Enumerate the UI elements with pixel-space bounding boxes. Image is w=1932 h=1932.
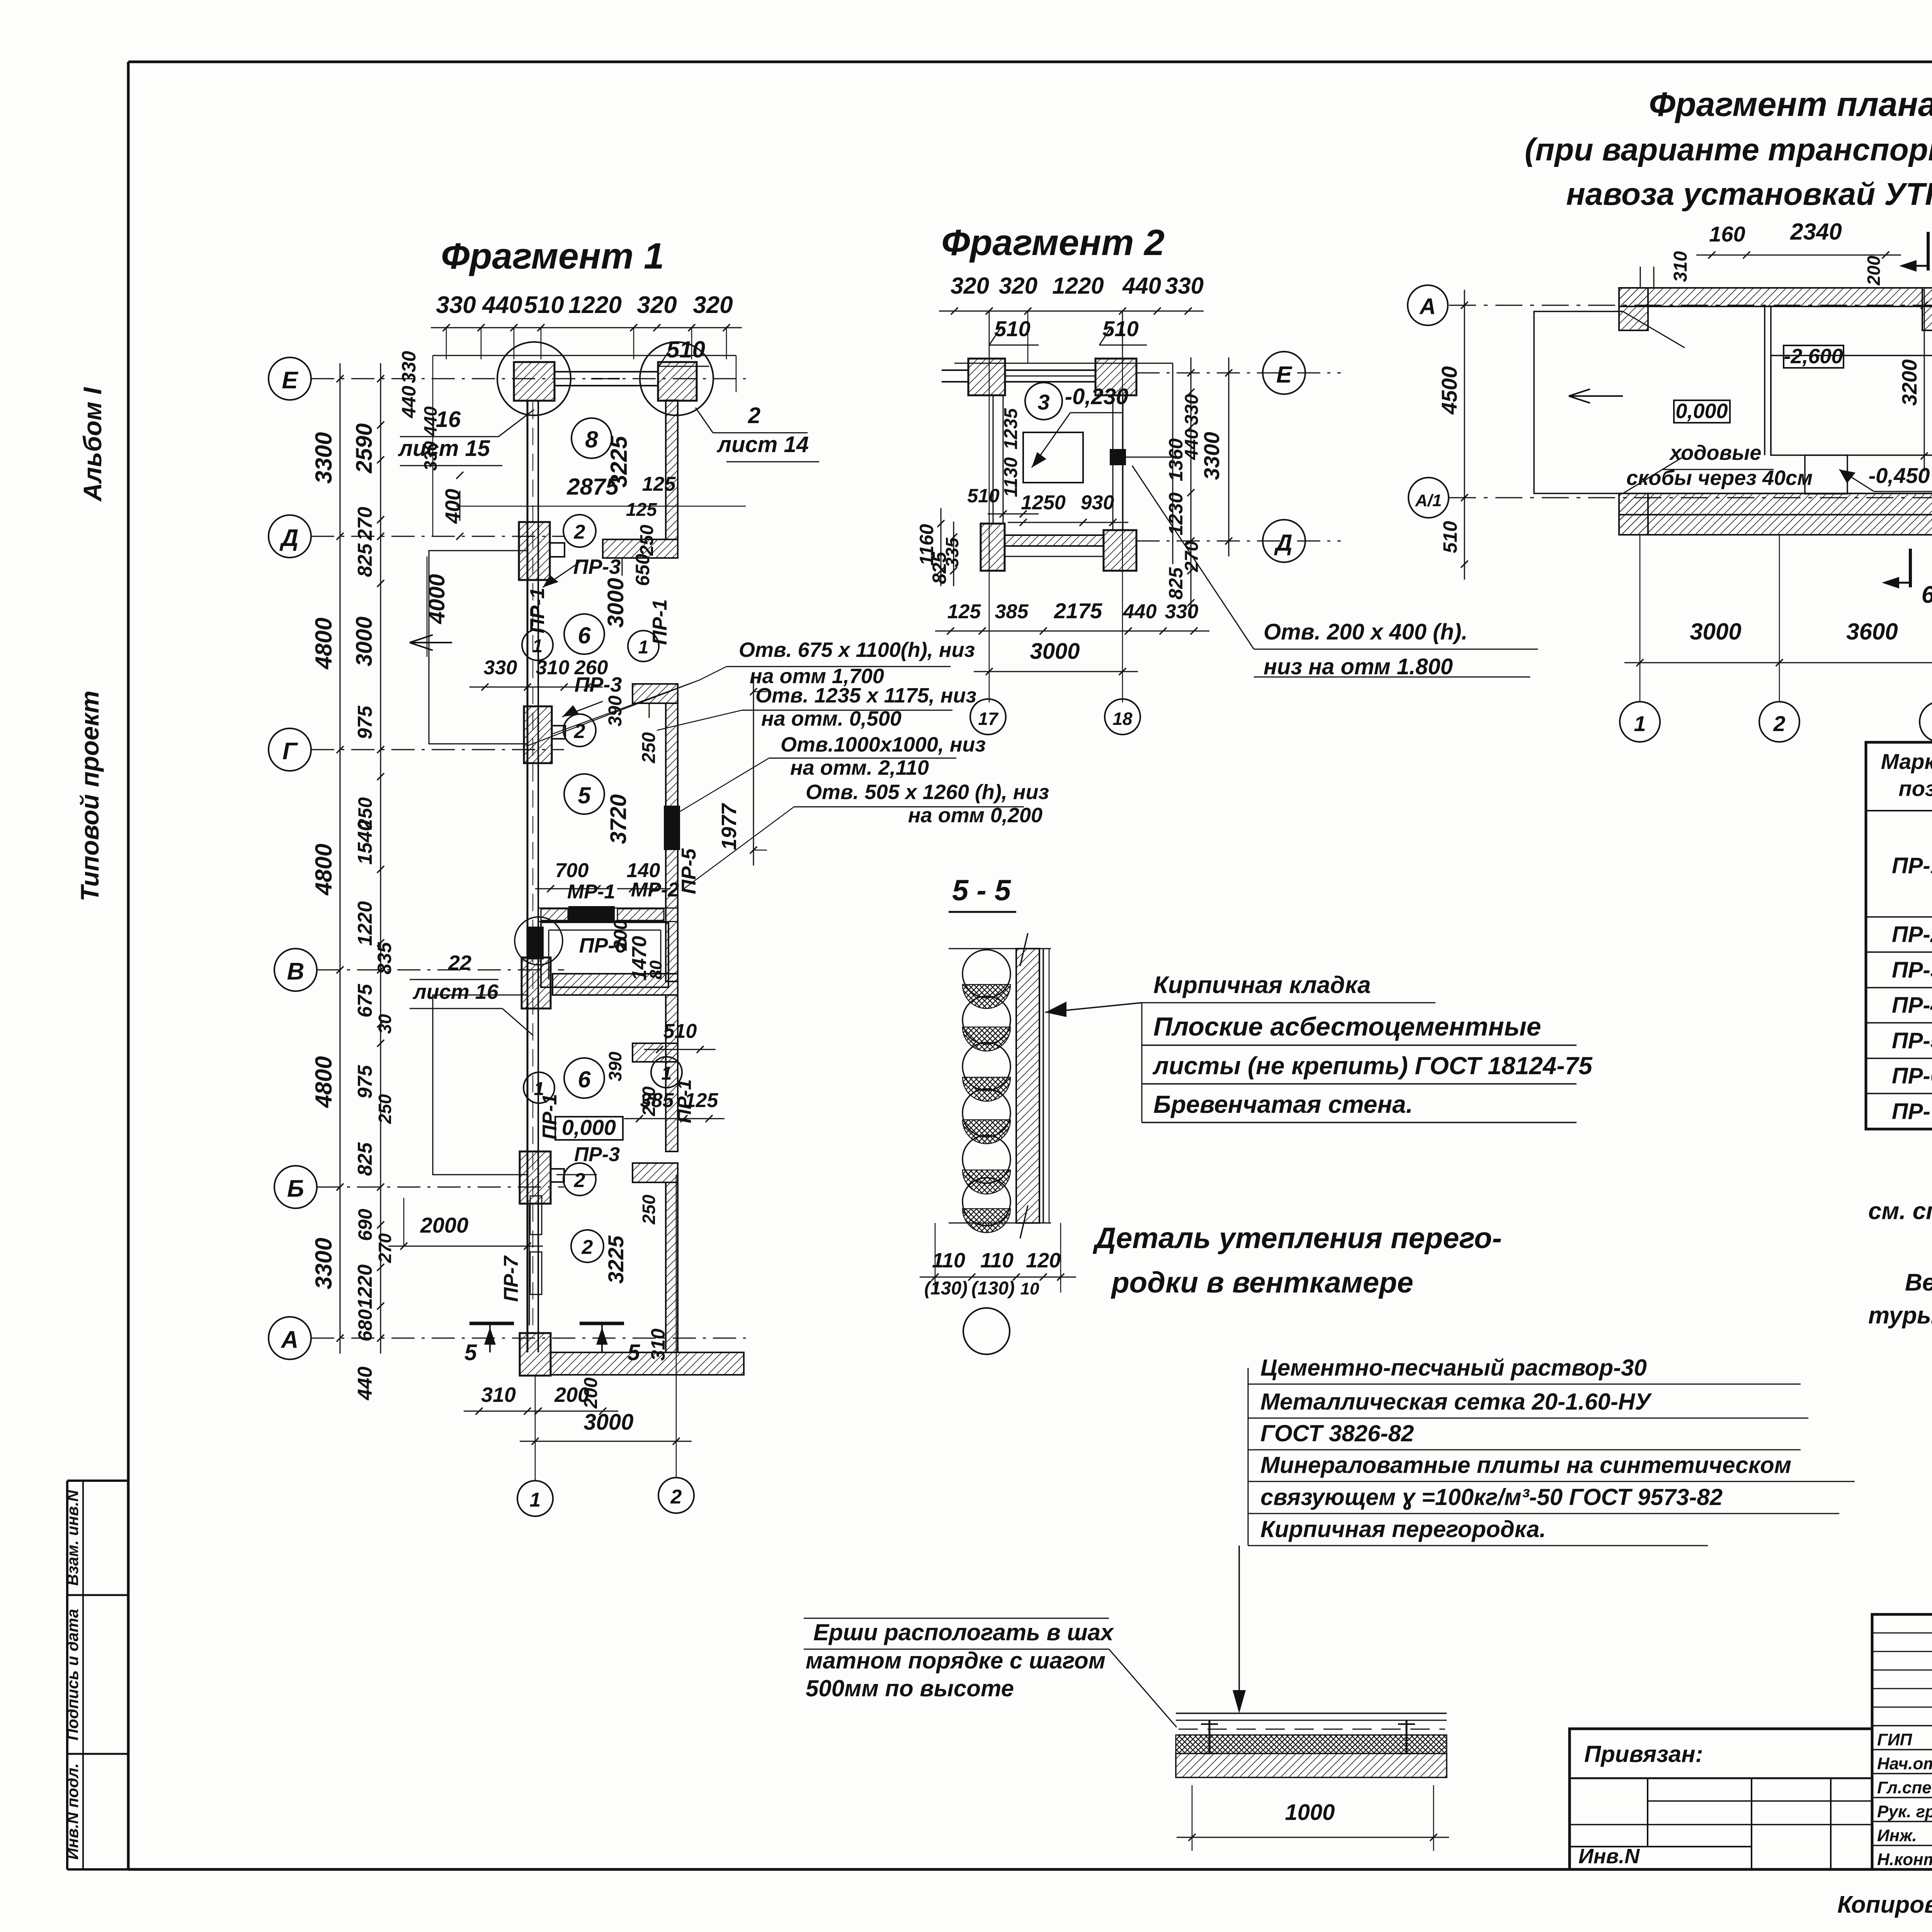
svg-text:510: 510 [524,292,564,318]
svg-text:1220: 1220 [354,901,376,946]
svg-text:ПР-6: ПР-6 [1892,1063,1932,1088]
svg-text:2: 2 [670,1486,682,1508]
svg-text:390: 390 [605,1051,625,1081]
plan column circles 1 2 3 [1639,535,1641,701]
svg-text:330: 330 [436,292,476,318]
svg-text:3000: 3000 [583,1410,633,1435]
bottom band of ventkamera [553,974,678,995]
plan top-right pilaster [1922,288,1932,330]
svg-text:Марка,: Марка, [1881,749,1932,774]
svg-text:125: 125 [626,500,657,520]
black block PR-5 [664,806,680,850]
svg-text:690: 690 [354,1209,376,1241]
pilaster at axis G [524,706,552,763]
svg-text:Фрагмент 1: Фрагмент 1 [441,236,664,277]
svg-text:120: 120 [1026,1249,1061,1272]
svg-text:ПР-3: ПР-3 [573,555,621,578]
axis circle A plan [1408,285,1448,325]
svg-text:270: 270 [375,1233,395,1263]
svg-text:10: 10 [1020,1279,1039,1298]
svg-text:440: 440 [481,292,522,318]
section mark 6 bottom [1909,549,1912,587]
adjacent room outline V-B [433,995,527,1175]
svg-text:Копировал: Копировал [1837,1891,1932,1918]
svg-text:(при варианте транспортировки: (при варианте транспортировки [1525,132,1932,167]
svg-text:700: 700 [555,859,589,882]
svg-text:200: 200 [1864,255,1884,286]
svg-text:250: 250 [639,1194,659,1225]
svg-text:675: 675 [354,984,376,1018]
svg-text:4800: 4800 [311,1056,337,1108]
svg-text:440: 440 [354,1367,376,1401]
svg-text:3: 3 [1037,390,1049,414]
room circle 2 (upper) [563,515,596,547]
open rectangle left (ramp) [1534,311,1623,493]
svg-text:Нач.отд: Нач.отд [1877,1754,1932,1773]
svg-text:листы (не крепить) ГОСТ 18124-: листы (не крепить) ГОСТ 18124-75 [1152,1052,1593,1080]
axis circle B [274,1166,317,1208]
room circle 5 [564,774,604,814]
svg-text:22: 22 [448,951,471,975]
svg-text:1: 1 [530,1489,541,1511]
corner notch band near 125 [603,539,678,558]
svg-text:А/1: А/1 [1415,491,1442,510]
fragment 1 top outline with detail circles [433,355,736,356]
fragment 2 bottom-left pilaster [981,524,1005,571]
right wall lower segment [666,1182,678,1352]
pilaster at axis B [520,1151,551,1204]
svg-text:825: 825 [354,1142,376,1176]
svg-text:туры наружного воздуха мину: туры наружного воздуха минус 40°С [1868,1302,1932,1329]
svg-text:А: А [281,1327,299,1353]
plan bottom wall bands [1619,493,1932,515]
fragment 2 outline box [954,363,1173,364]
svg-text:ПР-7: ПР-7 [1892,1099,1932,1124]
svg-text:ПР-7: ПР-7 [500,1255,522,1302]
svg-text:Цементно-песчаный раствор-30: Цементно-песчаный раствор-30 [1260,1355,1647,1381]
axis circle V [274,949,317,991]
adjacent room outline D-G [429,551,527,744]
svg-text:6: 6 [578,622,591,648]
plan bottom-left pilaster [1619,493,1648,535]
black block in left wall + detail circle [527,927,544,959]
svg-text:Д: Д [1274,530,1292,556]
svg-text:4800: 4800 [311,617,337,669]
axis circle A [269,1317,311,1359]
svg-text:385: 385 [640,1089,674,1112]
axis circle A/1 [1408,478,1449,518]
svg-text:ПР-6: ПР-6 [579,934,627,957]
svg-text:250: 250 [639,732,659,764]
svg-text:6: 6 [1922,582,1932,608]
inner wall vertical [1764,305,1765,455]
svg-text:ПР-1: ПР-1 [526,588,549,633]
plan top-left pilaster [1619,288,1648,330]
svg-text:110: 110 [980,1249,1014,1272]
svg-text:400: 400 [441,489,464,524]
svg-text:ходовые: ходовые [1669,441,1762,464]
svg-text:Инж.: Инж. [1877,1826,1917,1845]
room circle 1 right [628,631,659,662]
svg-text:17: 17 [978,709,999,729]
svg-text:ПР-3: ПР-3 [575,673,622,696]
svg-text:Кирпичная перегородка.: Кирпичная перегородка. [1260,1516,1546,1542]
svg-text:(130): (130) [971,1278,1015,1299]
svg-text:Отв. 1235 х 1175, низ: Отв. 1235 х 1175, низ [755,684,976,707]
-2,600 box plan [1784,345,1844,368]
svg-text:лист 16: лист 16 [412,980,499,1003]
right corner wall at room 5 top [633,684,678,703]
pilaster at axis D [519,522,550,580]
sheet frame [128,61,1932,63]
room circle 1 right lower [651,1057,682,1088]
svg-text:2: 2 [748,403,760,428]
svg-text:ПР-1: ПР-1 [649,599,671,645]
black block right wall [1110,449,1126,465]
svg-text:Альбом I: Альбом I [78,387,107,502]
fragment 2 right wall [1112,395,1114,530]
privyazan table [1570,1729,1872,1869]
axis line D [311,536,564,537]
axis line G [311,749,564,750]
svg-text:2: 2 [582,1236,593,1259]
room circle 2 bottom [571,1230,604,1262]
signature table [1872,1614,1932,1869]
svg-text:5: 5 [464,1340,477,1365]
svg-text:1: 1 [638,637,649,658]
svg-text:3300: 3300 [311,1238,337,1289]
svg-text:270: 270 [354,507,376,541]
axis line B [317,1187,564,1188]
specification table grid [1866,742,1932,1129]
svg-text:ПР-1: ПР-1 [673,1079,695,1123]
room circle 2 lower [563,1163,596,1196]
axis line V [317,969,564,971]
chimney marks top-left [1640,267,1641,288]
svg-text:Б: Б [287,1175,304,1202]
lintel between pilasters on axis E [554,371,658,372]
fragment 2 axis E circle [1136,372,1341,374]
svg-text:Гл.спец.: Гл.спец. [1877,1778,1932,1797]
svg-text:2000: 2000 [420,1213,469,1237]
svg-text:Рук. гр.: Рук. гр. [1877,1802,1932,1821]
svg-text:835: 835 [374,942,395,975]
right wall below ventkamera [666,995,678,1151]
fragment 1 left wall (axis E to A) [527,400,529,1352]
svg-text:2590: 2590 [352,423,377,473]
svg-text:Бревенчатая стена.: Бревенчатая стена. [1153,1090,1413,1118]
svg-text:родки в венткамере: родки в венткамере [1111,1266,1413,1299]
svg-text:Взам. инв.N: Взам. инв.N [63,1489,82,1586]
svg-text:Величины, указанные в скобка: Величины, указанные в скобках, даны для … [1905,1269,1932,1296]
room circle 3 [1025,383,1062,420]
svg-text:330: 330 [484,656,517,679]
svg-text:-2,600: -2,600 [1784,345,1843,368]
svg-text:навоза установкай УТН-10): навоза установкай УТН-10) [1566,177,1932,212]
svg-text:Отв. 200 х 400 (h).: Отв. 200 х 400 (h). [1264,619,1468,645]
svg-text:МР-1: МР-1 [567,881,615,903]
svg-text:680: 680 [354,1309,376,1342]
svg-text:связующем ɣ =100кг/м³-50 ГОСТ: связующем ɣ =100кг/м³-50 ГОСТ 9573-82 [1260,1484,1723,1510]
funnel lines left [1623,311,1685,348]
svg-text:лист 15: лист 15 [398,436,490,461]
leader vertical arrow to slab [1248,1368,1249,1546]
svg-text:0,000: 0,000 [1675,400,1728,423]
svg-text:на отм. 0,500: на отм. 0,500 [761,707,901,730]
svg-text:Г: Г [282,738,298,765]
svg-text:250: 250 [375,1094,395,1124]
svg-text:510: 510 [1102,316,1138,341]
svg-text:1: 1 [532,636,543,656]
svg-text:Н.контр.: Н.контр. [1877,1850,1932,1869]
svg-text:1540: 1540 [354,820,376,865]
svg-text:975: 975 [354,1065,376,1099]
section marks 5-5 [469,1322,514,1325]
svg-text:440: 440 [1123,600,1157,623]
top-right pilaster [658,362,697,401]
fragment 1 right wall upper [666,400,678,539]
log wall circles [963,950,1010,998]
svg-text:330: 330 [398,351,420,383]
svg-text:Д: Д [279,525,299,551]
svg-text:110: 110 [932,1249,965,1272]
svg-text:3000: 3000 [1690,619,1741,645]
column circle 18 [1105,699,1140,735]
svg-text:200: 200 [554,1383,589,1406]
svg-text:30: 30 [375,1014,395,1034]
svg-text:ПР-3: ПР-3 [1892,957,1932,983]
svg-text:3000: 3000 [603,578,628,628]
svg-text:16: 16 [436,407,461,432]
fragment 2 bottom-right pilaster [1104,530,1136,571]
svg-text:Инв.N: Инв.N [1578,1845,1640,1868]
axis line A [311,1338,746,1339]
svg-text:4000: 4000 [424,574,449,624]
fragment 1 left dimension chains [340,363,341,1354]
svg-text:Деталь утепления перего-: Деталь утепления перего- [1092,1222,1502,1255]
svg-text:310: 310 [481,1383,516,1406]
svg-text:6: 6 [578,1066,591,1092]
fragment 2 top-right pilaster [1095,359,1136,395]
svg-text:510: 510 [1439,521,1461,553]
svg-text:500мм по высоте: 500мм по высоте [806,1675,1014,1701]
svg-text:4500: 4500 [1437,366,1461,415]
axis circle G [269,728,311,771]
pilaster at axis V [522,957,551,1009]
bottom circle 5-5 [963,1308,1010,1354]
svg-text:1977: 1977 [718,803,741,850]
svg-text:на отм. 2,110: на отм. 2,110 [790,756,929,779]
bottom wall at axis A [520,1333,551,1376]
svg-text:2: 2 [1773,711,1785,736]
svg-text:3720: 3720 [606,794,631,844]
column circle 17 [970,699,1006,735]
svg-text:330: 330 [1165,273,1204,299]
svg-text:3000: 3000 [1030,639,1080,664]
svg-text:Е: Е [282,367,298,394]
top-left pilaster [514,362,554,401]
-0,450 small pit [1805,455,1847,494]
svg-text:Подпись и дата: Подпись и дата [63,1609,82,1740]
svg-text:Фрагмент 2: Фрагмент 2 [941,222,1165,263]
svg-text:ПР-4: ПР-4 [1892,993,1932,1018]
svg-text:1360: 1360 [1165,438,1187,481]
svg-text:низ на отм 1.800: низ на отм 1.800 [1264,654,1453,679]
anchor pins in slab [1209,1720,1211,1753]
svg-text:1220: 1220 [1052,273,1104,299]
svg-text:Плоские асбестоцементные: Плоские асбестоцементные [1153,1012,1541,1041]
svg-text:1: 1 [662,1063,672,1084]
svg-text:Ерши распологать в шах: Ерши распологать в шах [813,1619,1114,1645]
pit outline right [1771,355,1932,455]
svg-text:1220: 1220 [568,292,622,318]
svg-text:Кирпичная кладка: Кирпичная кладка [1153,972,1371,998]
svg-text:5 - 5: 5 - 5 [952,874,1012,907]
room circle 6 [564,614,604,654]
svg-text:Привязан:: Привязан: [1584,1741,1703,1767]
svg-text:2: 2 [574,1169,585,1192]
svg-text:330: 330 [1165,600,1199,623]
svg-text:В: В [287,958,304,985]
svg-text:320: 320 [693,292,733,318]
svg-text:3200: 3200 [1898,359,1921,406]
svg-text:825: 825 [354,543,376,577]
svg-text:3300: 3300 [1199,432,1224,480]
section mark 6 top [1927,232,1930,270]
fragment 2 top-left pilaster [968,359,1005,395]
top/bottom boundary lines 5-5 [949,948,1051,949]
svg-text:Е: Е [1276,362,1293,388]
svg-text:Отв.1000х1000, низ: Отв.1000х1000, низ [781,733,986,756]
svg-text:1230: 1230 [1165,492,1187,535]
inner pit rectangle [1023,432,1083,483]
bottom-left stamp table [67,1480,128,1482]
svg-text:0,000: 0,000 [562,1115,616,1139]
column circle 1 [535,1376,536,1481]
0,000 level box [555,1117,623,1140]
room circle 6 lower [564,1058,604,1098]
fragment 1 right wall middle [666,703,678,981]
svg-text:18: 18 [1112,709,1133,729]
room circle 1 (lower left) [522,629,553,660]
svg-text:440: 440 [1122,273,1161,299]
lintel between pilasters fragment 2 [1005,369,1095,371]
detail circle left (node 16 list 15) [497,342,571,415]
brick wall hatched strip [1016,949,1039,1223]
PR-7 door in left wall [529,1204,530,1325]
svg-text:на отм 0,200: на отм 0,200 [908,804,1043,827]
svg-text:310: 310 [1670,251,1691,282]
svg-text:510: 510 [663,1020,697,1043]
svg-text:Отв. 505 х 1260 (h), низ: Отв. 505 х 1260 (h), низ [806,781,1049,804]
svg-text:поз: поз [1899,776,1932,801]
svg-text:975: 975 [354,706,376,740]
bottom lintel band [1005,535,1104,546]
svg-text:125: 125 [947,600,981,623]
svg-text:(130): (130) [924,1278,968,1299]
svg-text:см. спецификацию лист 5: см. спецификацию лист 5 [1868,1198,1932,1225]
svg-text:1250: 1250 [1021,492,1066,514]
svg-text:МР-2: МР-2 [631,879,679,901]
svg-text:-0,450: -0,450 [1869,463,1930,488]
svg-text:320: 320 [951,273,989,299]
svg-text:3000: 3000 [352,616,377,666]
svg-text:930: 930 [1081,492,1114,514]
fragment 2 left wall [993,395,994,524]
svg-text:Типовой проект: Типовой проект [75,690,104,901]
slab detail [1176,1713,1447,1714]
svg-text:5: 5 [578,782,591,808]
svg-text:3300: 3300 [311,432,337,483]
svg-text:320: 320 [637,292,677,318]
svg-text:1: 1 [1634,711,1646,736]
axis line E [311,378,746,379]
axis A line and circle [1449,305,1932,306]
svg-text:1220: 1220 [354,1264,376,1309]
PR-6 room (ventkamera) [541,922,668,987]
svg-text:ГИП: ГИП [1877,1730,1913,1749]
svg-text:лист 14: лист 14 [716,432,809,457]
room circle 2 (middle) [563,714,596,747]
svg-text:320: 320 [999,273,1037,299]
svg-text:3600: 3600 [1846,619,1898,645]
svg-text:1130: 1130 [1001,457,1021,497]
svg-text:2175: 2175 [1054,599,1102,623]
svg-text:1160: 1160 [916,524,937,566]
column circle 2 [676,1175,677,1478]
svg-text:А: А [1419,294,1436,319]
svg-text:330: 330 [1182,394,1202,425]
svg-text:1235: 1235 [1001,408,1021,449]
right corner wall near B [633,1163,678,1182]
svg-text:ГОСТ 3826-82: ГОСТ 3826-82 [1260,1420,1414,1446]
svg-text:Минераловатные плиты на синтет: Минераловатные плиты на синтетическом [1260,1452,1791,1478]
fragment 2 axis D circle [1136,541,1341,542]
svg-text:Инв.N подл.: Инв.N подл. [63,1763,82,1860]
detail circle right (node 2 list 14) [640,342,713,415]
axis A1 line and circle [1449,497,1932,498]
svg-text:310: 310 [536,656,570,679]
svg-text:Отв. 675 х 1100(h), низ: Отв. 675 х 1100(h), низ [739,638,975,662]
svg-text:160: 160 [1709,222,1745,246]
svg-text:8: 8 [585,427,598,452]
axis circle E [269,357,311,400]
svg-text:825: 825 [1165,567,1187,600]
0,000 box plan [1674,400,1730,423]
svg-text:матном порядке с шагом: матном порядке с шагом [806,1648,1105,1673]
svg-text:440: 440 [398,386,420,418]
corner near room 6 right [633,1043,678,1062]
svg-text:-0,230: -0,230 [1065,384,1128,409]
room circle 8 [571,418,612,458]
room circle 1 (room6) [524,1072,554,1103]
svg-text:385: 385 [995,600,1029,623]
svg-text:4800: 4800 [311,844,337,895]
svg-text:2: 2 [574,521,585,543]
svg-text:ПР-1: ПР-1 [1892,853,1932,878]
svg-text:650: 650 [632,554,653,586]
svg-text:2875: 2875 [566,474,619,500]
svg-text:Фрагмент плана: Фрагмент плана [1649,85,1932,123]
svg-text:Металлическая сетка 20-1.60-Н: Металлическая сетка 20-1.60-НУ [1260,1389,1652,1415]
svg-text:3225: 3225 [604,1235,628,1284]
svg-text:510: 510 [967,485,1000,507]
axis circle D [269,515,311,558]
svg-text:2340: 2340 [1790,219,1842,245]
plan top wall band [1619,288,1932,306]
svg-text:ПР-2: ПР-2 [1892,922,1932,947]
svg-text:ПР-5: ПР-5 [1892,1028,1932,1053]
